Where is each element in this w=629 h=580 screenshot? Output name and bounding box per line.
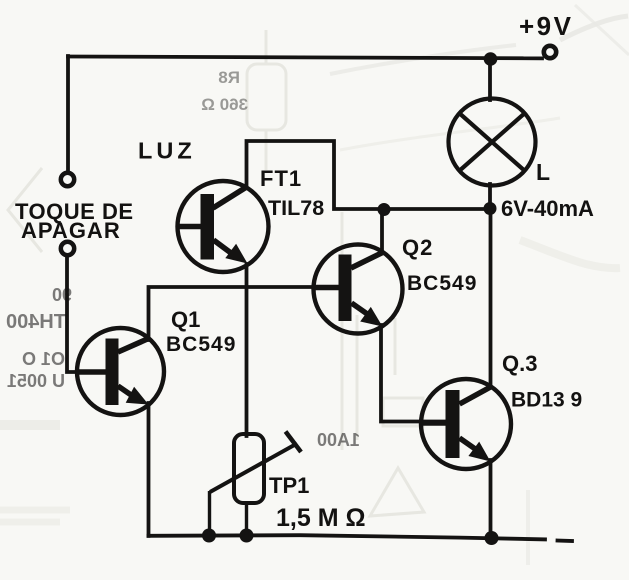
wire: lamp bottom to collector node — [488, 184, 492, 208]
wire: Q2 collector up to node — [380, 210, 384, 253]
svg-text:APAGAR: APAGAR — [21, 218, 121, 243]
svg-text:FT1: FT1 — [260, 166, 302, 191]
svg-text:BC549: BC549 — [407, 272, 477, 295]
svg-text:Q.3: Q.3 — [502, 351, 537, 376]
svg-text:6V-40mA: 6V-40mA — [501, 196, 594, 221]
label TOQUE DE APAGAR — [15, 199, 134, 243]
svg-text:360 Ω: 360 Ω — [201, 95, 248, 114]
svg-text:1,5 M Ω: 1,5 M Ω — [276, 504, 366, 532]
touch terminal upper — [61, 173, 74, 186]
junction: Q2 collector at node wire — [378, 203, 391, 216]
wire: Q3 emitter down to ground rail — [489, 460, 493, 539]
wire: lower touch plate down and right to Q1 base — [67, 258, 106, 373]
junction: Q3 emitter at ground rail — [485, 531, 499, 545]
wire: top +9V supply rail — [68, 57, 542, 59]
svg-text:BD13 9: BD13 9 — [511, 389, 582, 412]
transistor Q3 — [421, 379, 511, 469]
phototransistor FT1 — [178, 181, 269, 272]
lamp L — [449, 99, 536, 186]
wire: rail continuation dash — [558, 539, 573, 543]
svg-text:TP1: TP1 — [269, 473, 309, 498]
svg-text:Q2: Q2 — [402, 235, 433, 260]
svg-text:BC549: BC549 — [166, 333, 236, 356]
svg-text:R8: R8 — [218, 68, 240, 87]
junction: lamp branch on +9V rail — [484, 52, 498, 66]
svg-text:Q1: Q1 — [171, 307, 200, 332]
+9V supply terminal — [544, 46, 556, 58]
svg-text:O1 O: O1 O — [22, 349, 65, 369]
wire: FT1 collector loop to lamp-bottom node — [247, 141, 489, 209]
wire: bottom ground rail — [149, 535, 546, 539]
wire: left rail from top corner down to upper touch plate — [66, 56, 70, 170]
svg-text:1A00: 1A00 — [317, 430, 360, 450]
svg-text:LUZ: LUZ — [138, 138, 196, 164]
touch terminal lower — [61, 242, 74, 255]
wire: Q1 emitter down to ground rail — [147, 403, 151, 536]
junction: TP1 bottom at ground rail — [240, 529, 254, 543]
wire: lamp node down to Q3 collector — [489, 209, 493, 387]
transistor Q2 — [314, 245, 403, 334]
svg-text:90: 90 — [52, 285, 72, 305]
wire: FT1 emitter down to trimpot TP1 — [245, 264, 249, 436]
svg-text:+9V: +9V — [519, 11, 574, 41]
junction: TP1 wiper at ground rail — [202, 529, 216, 543]
wire: Q2 emitter down and right to Q3 base — [381, 325, 446, 422]
transistor Q1 — [77, 328, 164, 415]
trimpot TP1 — [210, 432, 302, 537]
wire: Q1 collector up and right to Q2 base — [149, 287, 340, 340]
junction: lamp bottom / collector node — [484, 202, 497, 215]
svg-text:TIL78: TIL78 — [268, 196, 324, 220]
svg-text:U 0051: U 0051 — [7, 371, 65, 391]
wire: top rail junction down to lamp — [488, 58, 492, 100]
svg-text:L: L — [536, 159, 550, 185]
svg-text:TH400: TH400 — [6, 311, 66, 333]
